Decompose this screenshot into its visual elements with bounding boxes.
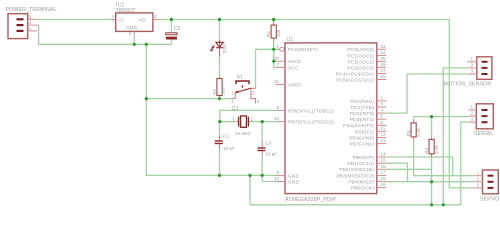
node GND vertical rail <box>145 43 148 46</box>
svg-text:PC0(ADC0): PC0(ADC0) <box>347 47 374 53</box>
svg-text:R4: R4 <box>424 147 429 153</box>
wire serial pin2 row <box>414 116 469 118</box>
connector SERIAL <box>468 104 493 137</box>
svg-text:1: 1 <box>277 44 280 49</box>
svg-text:9: 9 <box>277 105 280 110</box>
capacitor C1 10pF <box>215 134 235 152</box>
wire R3 top <box>413 117 415 120</box>
svg-text:3.3k: 3.3k <box>434 144 439 153</box>
svg-text:VCC: VCC <box>288 65 299 71</box>
svg-text:15: 15 <box>381 158 387 163</box>
resistor R1 300 <box>212 79 225 96</box>
svg-text:28: 28 <box>381 74 387 79</box>
connector MOTION_SENSOR <box>444 56 492 87</box>
svg-text:3: 3 <box>129 31 132 36</box>
microcontroller U1 ATMEGA328P_PDIP <box>278 37 377 203</box>
svg-text:20: 20 <box>274 56 280 61</box>
wire R4 column <box>431 117 433 137</box>
svg-text:ATMEGA328P_PDIP: ATMEGA328P_PDIP <box>285 197 337 203</box>
svg-text:8: 8 <box>277 170 280 175</box>
wire LED bottom to R1 top <box>219 57 221 77</box>
svg-text:21: 21 <box>274 79 280 84</box>
wire C3 column <box>261 122 263 144</box>
svg-text:16 MHz: 16 MHz <box>235 131 252 136</box>
U1 left pin numbers <box>274 44 280 181</box>
svg-text:PD4(XCK/T0): PD4(XCK/T0) <box>343 123 374 129</box>
svg-text:2: 2 <box>477 176 480 181</box>
svg-text:VO: VO <box>139 17 146 23</box>
svg-text:16: 16 <box>381 164 387 169</box>
wire PB1 jog to PB4 row <box>386 163 407 182</box>
svg-text:PD0(RXD): PD0(RXD) <box>350 99 374 105</box>
svg-text:2: 2 <box>251 117 254 122</box>
node serial R4 <box>430 115 433 118</box>
wire GND long vertical <box>146 44 275 175</box>
svg-text:2: 2 <box>29 20 32 25</box>
wire LED top from rail <box>219 20 221 42</box>
wire RESET node down to S1 <box>255 49 257 88</box>
svg-text:19: 19 <box>381 182 387 187</box>
svg-text:POWER_TERMINAL: POWER_TERMINAL <box>6 7 57 13</box>
connector SERVO <box>473 170 499 203</box>
node R1 bottom <box>218 97 221 100</box>
svg-text:3: 3 <box>29 14 32 19</box>
svg-text:12: 12 <box>381 132 387 137</box>
svg-text:1: 1 <box>232 117 235 122</box>
node LED rail <box>218 18 221 21</box>
node crystal left <box>218 120 221 123</box>
node AVCC <box>272 60 275 63</box>
svg-text:C3: C3 <box>265 141 271 146</box>
svg-text:PB4(MISO): PB4(MISO) <box>348 179 374 185</box>
svg-text:300: 300 <box>221 86 226 94</box>
svg-text:PC2(ADC2): PC2(ADC2) <box>347 59 374 65</box>
svg-text:C1: C1 <box>223 134 229 139</box>
svg-text:5: 5 <box>381 114 384 119</box>
resistor pin stubs <box>220 22 432 157</box>
svg-text:C2: C2 <box>174 26 181 32</box>
regulator IC1 7805DT <box>111 3 158 37</box>
svg-text:PD2(INT0): PD2(INT0) <box>350 111 374 117</box>
node C3 gnd <box>261 174 264 177</box>
wire PB4 to servo pin2 <box>386 181 473 183</box>
svg-text:PB7(XTAL2/TOSC2): PB7(XTAL2/TOSC2) <box>288 120 334 126</box>
svg-text:LED1: LED1 <box>222 43 227 55</box>
svg-text:S1: S1 <box>237 75 244 81</box>
node C1 gnd <box>218 174 221 177</box>
svg-text:2: 2 <box>471 63 474 68</box>
svg-text:13: 13 <box>381 138 387 143</box>
svg-text:10 pF: 10 pF <box>265 151 277 156</box>
wire GND down to bottom rail <box>249 175 251 204</box>
wire AVCC VCC feed <box>274 49 276 67</box>
svg-text:2: 2 <box>154 14 157 19</box>
svg-text:PB2(SS/OC1B): PB2(SS/OC1B) <box>339 167 374 173</box>
resistor R3 2.2k <box>406 123 421 137</box>
U1 left pin names <box>288 47 334 185</box>
svg-text:VI: VI <box>119 17 124 23</box>
wire bottom GND rail <box>250 122 468 205</box>
svg-text:GND: GND <box>288 179 299 185</box>
wire C1 column <box>219 122 221 137</box>
svg-text:PD7(AIN1): PD7(AIN1) <box>350 142 375 148</box>
wire R2 top from rail <box>273 20 275 22</box>
svg-text:14: 14 <box>381 152 387 157</box>
svg-text:1: 1 <box>471 105 474 110</box>
svg-text:1: 1 <box>477 170 480 175</box>
svg-text:7: 7 <box>277 62 280 67</box>
node IC1 GND rail <box>133 43 136 46</box>
wire PB2 row <box>386 168 431 170</box>
svg-text:MOTION_SENSOR: MOTION_SENSOR <box>444 82 492 88</box>
U1 right pin names <box>336 47 375 191</box>
svg-text:R1: R1 <box>212 88 217 94</box>
node C2 top <box>170 18 173 21</box>
wire PT pin2 down to GND rail <box>37 25 171 44</box>
wire PB6 to crystal node <box>220 110 276 121</box>
node GND S1 branch <box>145 97 148 100</box>
svg-text:23: 23 <box>381 44 387 49</box>
wire PB0 down <box>386 157 452 176</box>
wire crystal right to PB7 <box>250 121 275 123</box>
svg-text:1: 1 <box>231 91 234 96</box>
svg-text:PD5(T1): PD5(T1) <box>355 129 374 135</box>
wire GND branch to S1 and R1 <box>146 98 231 100</box>
svg-text:18: 18 <box>381 176 387 181</box>
svg-text:U1: U1 <box>287 37 294 43</box>
wire PT pin3 to IC1 VI <box>37 19 111 21</box>
svg-text:7805DT: 7805DT <box>116 8 136 14</box>
svg-text:26: 26 <box>381 62 387 67</box>
svg-text:2: 2 <box>231 99 234 104</box>
capacitor C2 polarized <box>166 26 181 40</box>
wire PD2 to motion sensor pin3 <box>386 74 467 113</box>
wire motion sensor pin2 to GND <box>443 68 467 205</box>
svg-text:25: 25 <box>381 56 387 61</box>
capacitor C3 10pF <box>258 141 278 157</box>
svg-text:PB0(ICP): PB0(ICP) <box>353 155 375 161</box>
svg-text:22: 22 <box>274 176 280 181</box>
svg-text:4: 4 <box>381 108 384 113</box>
svg-text:PC1(ADC1): PC1(ADC1) <box>347 53 374 59</box>
svg-text:2: 2 <box>471 111 474 116</box>
node rail 443 <box>442 203 445 206</box>
svg-text:1: 1 <box>112 14 115 19</box>
svg-text:PB6(XTAL1/TOSC1): PB6(XTAL1/TOSC1) <box>288 108 334 114</box>
svg-text:PD6(AIN0): PD6(AIN0) <box>350 135 375 141</box>
wire AVCC jog <box>274 60 276 62</box>
U1 left pin stubs <box>276 61 286 181</box>
svg-text:4: 4 <box>257 99 260 104</box>
node crystal right <box>261 120 264 123</box>
wire IC1 GND to rail <box>133 36 135 45</box>
wire RESET node to bubble <box>256 48 280 50</box>
svg-text:1: 1 <box>471 56 474 61</box>
wire R4 bottom down to rail <box>431 157 433 205</box>
svg-text:24: 24 <box>381 50 387 55</box>
pin 1 RESET bubble <box>280 47 284 51</box>
svg-text:11: 11 <box>381 126 386 131</box>
svg-text:6: 6 <box>381 120 384 125</box>
svg-text:PD1(TXD): PD1(TXD) <box>351 105 375 111</box>
svg-text:AVCC: AVCC <box>288 59 302 65</box>
LED LED1 <box>211 40 228 57</box>
svg-text:27: 27 <box>381 68 387 73</box>
wire C3 bottom <box>261 155 263 175</box>
svg-text:PB1(OC1A): PB1(OC1A) <box>347 161 374 167</box>
svg-text:R2: R2 <box>266 31 271 37</box>
svg-text:PB5(SCK): PB5(SCK) <box>351 186 375 192</box>
svg-text:AREF: AREF <box>288 82 301 88</box>
wire R2 bottom to RESET node <box>273 41 275 49</box>
node RESET junction <box>272 48 275 51</box>
svg-text:PB3(MOSI/OC2): PB3(MOSI/OC2) <box>336 173 374 179</box>
wire +5V top rail <box>159 20 474 188</box>
svg-text:3: 3 <box>471 69 474 74</box>
node gnd rail drop <box>248 174 251 177</box>
resistor R4 3.3k <box>424 139 439 154</box>
svg-text:PC3(ADC3): PC3(ADC3) <box>347 65 374 71</box>
node R2 rail <box>272 18 275 21</box>
svg-text:GND: GND <box>126 25 137 31</box>
node rail R4 column <box>430 203 433 206</box>
svg-text:PC4(ADC4/SDA): PC4(ADC4/SDA) <box>336 71 375 77</box>
svg-text:PC5(ADC5/SCL): PC5(ADC5/SCL) <box>336 77 374 83</box>
power terminal X1 <box>6 7 57 38</box>
wire GND pin22 branch <box>262 175 275 181</box>
svg-text:PD3(INT1): PD3(INT1) <box>350 117 374 123</box>
svg-text:1: 1 <box>29 26 32 31</box>
svg-text:3: 3 <box>381 102 384 107</box>
svg-text:3: 3 <box>471 117 474 122</box>
svg-text:SERIAL: SERIAL <box>474 131 493 137</box>
svg-text:10: 10 <box>274 116 280 121</box>
svg-text:Q1: Q1 <box>232 106 239 112</box>
wire C1 bottom <box>219 148 221 175</box>
svg-text:17: 17 <box>381 170 387 175</box>
svg-text:GND: GND <box>288 173 299 179</box>
wires layer <box>37 20 473 205</box>
crystal Q1 16 MHz <box>232 106 254 136</box>
wire crystal row <box>220 121 237 123</box>
svg-text:SERVO: SERVO <box>480 197 499 203</box>
wire C2 top <box>170 20 172 32</box>
pushbutton S1 <box>231 75 259 105</box>
wire C2 bottom <box>170 40 172 45</box>
U1 right pin numbers <box>381 44 387 187</box>
svg-text:2: 2 <box>381 95 384 100</box>
svg-text:2.2k: 2.2k <box>416 128 421 137</box>
resistor R2 10k <box>266 25 281 38</box>
node servo2 R4 <box>430 180 433 183</box>
svg-text:PC6(RESET): PC6(RESET) <box>288 47 318 53</box>
svg-text:10k: 10k <box>276 29 281 37</box>
svg-text:3: 3 <box>477 183 480 188</box>
svg-text:10 pF: 10 pF <box>223 146 235 151</box>
U1 right pin stubs <box>377 49 387 187</box>
svg-text:R3: R3 <box>406 130 411 136</box>
wire R3 bottom to servo pin1 <box>414 140 474 176</box>
svg-text:3: 3 <box>252 91 255 96</box>
